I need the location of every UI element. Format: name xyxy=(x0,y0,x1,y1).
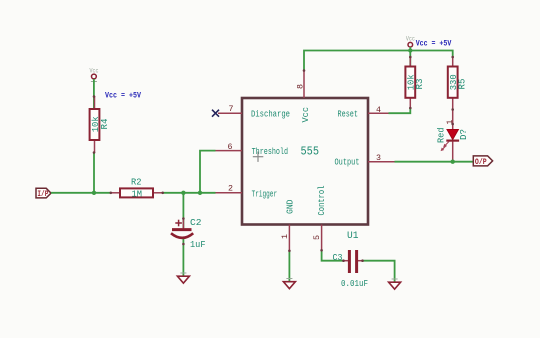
svg-text:1M: 1M xyxy=(132,189,143,200)
U1 pin 1 (GND) xyxy=(281,225,290,252)
U1 pin 2 (Trigger) xyxy=(216,184,243,193)
resistor R5 xyxy=(448,57,468,111)
svg-text:2: 2 xyxy=(228,184,233,193)
junction LED/output xyxy=(451,160,455,164)
svg-text:5: 5 xyxy=(313,235,322,240)
wire R5 to LED xyxy=(452,108,454,130)
svg-text:555: 555 xyxy=(301,144,320,158)
svg-text:O/P: O/P xyxy=(475,158,487,167)
svg-text:Reset: Reset xyxy=(338,108,359,119)
svg-text:8: 8 xyxy=(297,84,306,89)
U1 pin 3 (Output) xyxy=(368,154,395,163)
resistor R2 xyxy=(111,177,164,200)
wire LED to output net xyxy=(452,142,454,162)
op-amp U1 body (555 IC) xyxy=(242,98,368,225)
wire C2 to ground xyxy=(182,239,184,276)
svg-text:R3: R3 xyxy=(414,78,425,89)
junction threshold xyxy=(198,191,202,195)
svg-text:6: 6 xyxy=(228,143,233,152)
U1 pin 8 (Vcc) xyxy=(297,70,306,98)
svg-text:C3: C3 xyxy=(333,252,343,263)
cursor crosshair near Threshold xyxy=(253,152,263,162)
svg-text:Vcc: Vcc xyxy=(300,107,311,123)
wire Vcc to R4 xyxy=(93,79,95,109)
svg-text:Output: Output xyxy=(335,157,360,168)
U1 pin 7 (Discharge) xyxy=(218,105,242,114)
U1 pin 6 (Threshold) xyxy=(216,143,243,152)
svg-text:Threshold: Threshold xyxy=(252,146,289,157)
svg-text:Red: Red xyxy=(435,128,446,144)
svg-text:R4: R4 xyxy=(99,118,110,129)
port O/P xyxy=(473,156,492,167)
ground (under pin 1) xyxy=(283,279,295,289)
wire threshold riser xyxy=(200,151,216,193)
svg-text:Trigger: Trigger xyxy=(252,189,278,200)
svg-text:D?: D? xyxy=(458,129,469,140)
wire pin5 to C3 xyxy=(322,251,343,261)
power flag Vcc (left) xyxy=(90,68,99,84)
port I/P xyxy=(36,188,51,199)
svg-text:Discharge: Discharge xyxy=(251,108,290,119)
wire C3 to ground xyxy=(363,261,395,282)
no-connect X on pin 7 xyxy=(212,110,219,117)
svg-text:GND: GND xyxy=(284,199,295,214)
svg-text:U1: U1 xyxy=(347,230,359,242)
U1 pin 5 (Control) xyxy=(313,225,322,251)
LED D7 xyxy=(435,119,469,151)
wire top rail (Vcc to pin8/R5) xyxy=(304,51,453,71)
wire R3 to reset pin xyxy=(389,108,411,113)
ground (under C2) xyxy=(177,273,189,283)
junction Vcc rail xyxy=(408,48,412,52)
svg-text:Vcc: Vcc xyxy=(406,36,415,43)
wire I/P to R2 xyxy=(51,192,111,194)
wire R4 to trigger net xyxy=(93,153,95,193)
power flag Vcc (right) xyxy=(406,36,415,51)
svg-text:Vcc: Vcc xyxy=(90,68,99,75)
svg-text:R5: R5 xyxy=(457,78,468,89)
svg-text:1: 1 xyxy=(281,234,290,239)
svg-text:Vcc = +5V: Vcc = +5V xyxy=(105,91,142,101)
svg-text:3: 3 xyxy=(376,154,381,163)
capacitor C2 (polarized) xyxy=(171,217,206,250)
svg-text:Vcc = +5V: Vcc = +5V xyxy=(416,38,452,48)
wire rail to R3 xyxy=(409,51,411,67)
pin end dots xyxy=(93,56,454,262)
svg-text:1uF: 1uF xyxy=(190,239,206,250)
wire output to O/P xyxy=(395,161,474,163)
wire R2 to trigger pin xyxy=(163,192,216,194)
svg-text:0.01uF: 0.01uF xyxy=(341,278,368,289)
U1 pin 4 (Reset) xyxy=(368,106,389,115)
wire trigger net to C2 xyxy=(182,193,184,228)
capacitor C3 xyxy=(333,250,369,289)
svg-text:4: 4 xyxy=(376,106,381,115)
svg-text:7: 7 xyxy=(229,105,234,114)
ground (right of C3) xyxy=(389,279,401,289)
junction C2 xyxy=(181,191,185,195)
resistor R3 xyxy=(405,57,425,110)
svg-text:R2: R2 xyxy=(131,177,142,188)
resistor R4 xyxy=(90,96,111,153)
svg-text:I/P: I/P xyxy=(37,190,48,199)
svg-text:C2: C2 xyxy=(190,217,202,228)
svg-text:Control: Control xyxy=(316,185,327,215)
wire pin1 to ground xyxy=(288,251,290,281)
junction R4/trigger xyxy=(92,191,96,195)
